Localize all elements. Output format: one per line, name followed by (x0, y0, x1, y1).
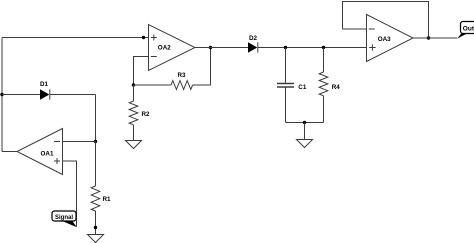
op-amp OA1 (17, 129, 63, 175)
wire D1 cathode to corner (50, 94, 96, 96)
svg-text:Signal: Signal (55, 215, 73, 221)
wire R4 bottom lead (323, 96, 325, 123)
wire OA3 output (413, 37, 457, 39)
svg-text:C1: C1 (298, 84, 307, 91)
wire C1 top lead (285, 48, 287, 84)
node junction C1 (284, 46, 287, 49)
wire node to R1 (95, 142, 97, 187)
node junction above ground R1 (94, 226, 97, 229)
wire R2 to ground (133, 125, 135, 141)
wire left vertical bus (1, 38, 3, 152)
wire R2 top lead (133, 85, 135, 101)
op-amp OA1 plus marker (54, 158, 60, 164)
node junction on OA2 + wire (142, 36, 145, 39)
node junction OA2 output feedback (209, 46, 212, 49)
svg-text:D2: D2 (249, 35, 258, 42)
wire OA1 plus input (63, 161, 77, 227)
svg-text:R3: R3 (178, 72, 187, 79)
svg-text:OA2: OA2 (158, 45, 171, 52)
resistor R2 (129, 101, 138, 125)
node junction R2 / R3 (132, 83, 135, 86)
resistor R1 (91, 186, 100, 211)
op-amp OA2 minus marker (151, 56, 157, 58)
wire R4 top lead (323, 48, 325, 73)
wire OA1 minus input (63, 141, 96, 143)
diode D1 (40, 89, 50, 99)
op-amp OA2 plus marker (151, 35, 157, 41)
op-amp OA2 (149, 25, 196, 71)
node junction ground branch (303, 121, 306, 124)
resistor R4 (319, 72, 328, 96)
capacitor C1 (277, 84, 294, 88)
wire D2 to OA3 plus input (258, 47, 367, 49)
ground under R1 (88, 235, 104, 243)
node junction R4 (322, 46, 325, 49)
wire R1 to ground (95, 211, 97, 235)
node junction left bus / D1 (0, 93, 3, 96)
wire OA2 minus input (134, 57, 149, 86)
svg-text:R4: R4 (332, 84, 341, 91)
svg-text:Out: Out (463, 26, 474, 33)
node junction OA1 minus / R1 (94, 140, 97, 143)
resistor R3 (171, 81, 193, 90)
ground under C1 R4 (297, 140, 313, 148)
svg-text:OA3: OA3 (378, 36, 391, 43)
wire vertical D1 to OA1 minus node (95, 95, 97, 142)
op-amp OA3 (367, 15, 414, 62)
wire R3 right lead to OA2 output (193, 48, 211, 86)
wire D1 anode (2, 94, 40, 96)
wire R3 left lead (134, 84, 172, 86)
op-amp OA3 plus marker (369, 44, 375, 50)
diode D2 (248, 42, 258, 52)
wire OA1 output to left bus (2, 151, 17, 153)
wire to ground (304, 123, 306, 140)
svg-text:D1: D1 (40, 81, 49, 88)
wire top to OA2 + input (2, 37, 149, 39)
svg-text:R1: R1 (103, 196, 112, 203)
ground under R2 (126, 141, 142, 149)
node junction OA3 output feedback (427, 36, 430, 39)
label Signal tag (52, 211, 77, 227)
wire C1 bottom lead (285, 88, 287, 123)
wire bottom C1 to R4 (286, 122, 324, 124)
op-amp OA3 minus marker (369, 28, 375, 30)
label Out tag (457, 22, 474, 39)
wire OA2 output to D2 (195, 47, 248, 49)
svg-text:R2: R2 (142, 111, 151, 118)
wire OA3 feedback loop (343, 2, 429, 39)
op-amp OA1 minus marker (54, 141, 60, 143)
svg-text:OA1: OA1 (41, 151, 54, 158)
